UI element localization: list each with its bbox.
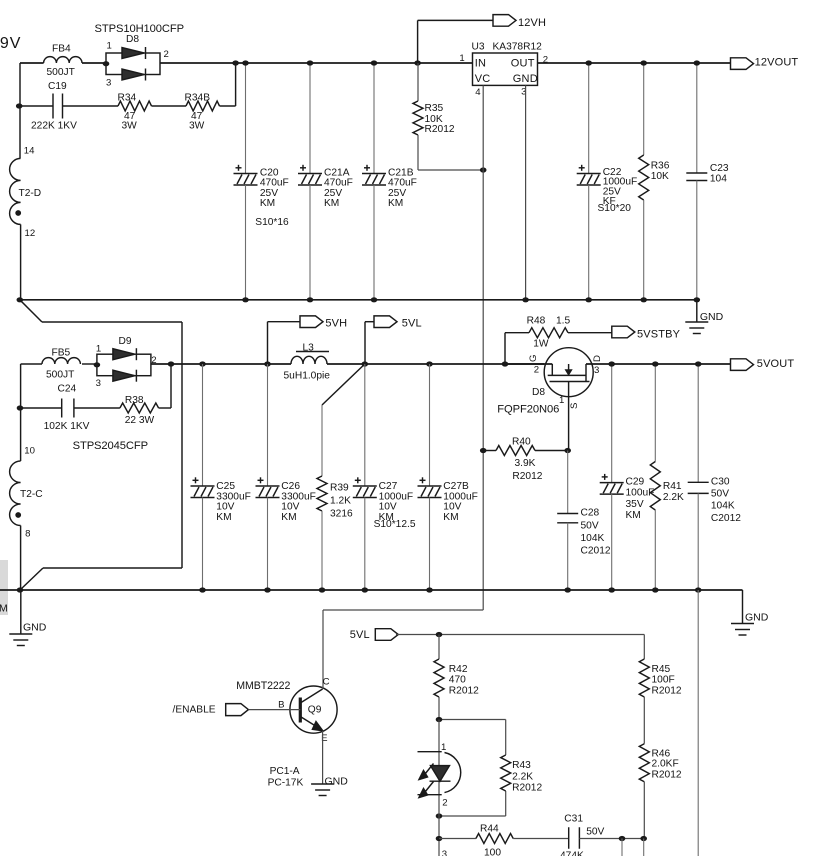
- resistor R38: [74, 407, 120, 409]
- capacitor C27: [364, 364, 366, 486]
- wire FB4 leads: [20, 62, 44, 64]
- node T2-D bus junction: [17, 297, 24, 302]
- inductor L3: [291, 356, 327, 364]
- node R39 bus junction: [319, 587, 326, 592]
- node C21A bottom: [307, 297, 314, 302]
- svg-text:C31: C31: [564, 814, 583, 825]
- resistor R45: [639, 659, 649, 697]
- node C28 bus junction: [564, 587, 571, 592]
- svg-text:R39: R39: [330, 482, 349, 493]
- resistor R43: [501, 755, 511, 791]
- svg-text:GND: GND: [513, 73, 538, 85]
- node R35-VC junction: [480, 167, 487, 172]
- svg-text:1: 1: [107, 40, 112, 51]
- svg-text:FQPF20N06: FQPF20N06: [497, 404, 559, 416]
- svg-text:3: 3: [96, 378, 101, 389]
- svg-text:104K: 104K: [581, 533, 605, 544]
- svg-text:R40: R40: [512, 436, 531, 447]
- capacitor C20: [245, 63, 247, 174]
- svg-text:IN: IN: [475, 58, 486, 70]
- resistor R34B: [152, 105, 187, 107]
- node C27-5VL rail junction: [362, 361, 369, 366]
- svg-text:5VH: 5VH: [325, 318, 347, 330]
- svg-text:R48: R48: [527, 315, 546, 326]
- node C23 top: [694, 60, 701, 65]
- node C20 bottom: [242, 297, 249, 302]
- svg-text:Q9: Q9: [308, 704, 322, 715]
- node C24 junction: [17, 405, 24, 410]
- wire 5V ground bus: [0, 589, 743, 591]
- wire T2-C pin8 to bus: [20, 526, 22, 591]
- svg-text:VC: VC: [475, 73, 491, 85]
- node C27B bus junction: [426, 587, 433, 592]
- svg-text:2.2K: 2.2K: [663, 492, 684, 503]
- node C22 top: [585, 60, 592, 65]
- flag 12VOUT: [731, 58, 754, 70]
- svg-text:S10*16: S10*16: [255, 217, 289, 228]
- svg-text:3W: 3W: [122, 121, 138, 132]
- svg-text:KM: KM: [626, 510, 641, 521]
- svg-text:14: 14: [24, 145, 35, 156]
- node C26 bus junction: [264, 587, 271, 592]
- node C27B rail junction: [426, 361, 433, 366]
- node R40 right junction: [564, 448, 571, 453]
- resistor R40: [496, 446, 535, 456]
- ground GND 5V bus right: [742, 590, 744, 624]
- node C26-5VH rail junction: [264, 361, 271, 366]
- svg-text:C2012: C2012: [581, 546, 611, 557]
- flag /ENABLE: [226, 704, 249, 716]
- node R48-gate junction: [502, 361, 509, 366]
- resistor R34: [63, 105, 119, 107]
- svg-text:2.0KF: 2.0KF: [652, 759, 679, 770]
- svg-text:R34: R34: [118, 93, 137, 104]
- flag 5VSTBY: [612, 326, 635, 338]
- transistor D8 mosfet FQPF20N06: [544, 348, 593, 397]
- svg-text:STPS10H100CFP: STPS10H100CFP: [95, 23, 184, 35]
- flag 5VL bottom: [375, 629, 398, 641]
- svg-text:GND: GND: [23, 622, 47, 634]
- flag 12VH: [493, 15, 516, 27]
- node PC1 pin1 junction: [436, 717, 443, 722]
- ferrite bead FB5: [42, 358, 80, 364]
- resistor R36: [643, 63, 645, 155]
- svg-text:KM: KM: [216, 512, 231, 523]
- wire 5V output rail: [612, 363, 731, 365]
- node T2-C bus junction: [17, 587, 24, 592]
- node R41 rail junction: [652, 361, 659, 366]
- wire /ENABLE to base: [248, 709, 300, 711]
- svg-text:FB4: FB4: [52, 43, 71, 54]
- op-amp U3 KA378R12 regulator: [473, 53, 538, 85]
- svg-text:474K: 474K: [560, 851, 584, 856]
- svg-text:3: 3: [442, 849, 447, 856]
- resistor R41: [654, 364, 656, 462]
- svg-text:500JT: 500JT: [47, 67, 75, 78]
- svg-text:R38: R38: [125, 395, 144, 406]
- svg-text:8: 8: [25, 529, 30, 540]
- node C25 bus junction: [199, 587, 206, 592]
- wire 12V ground bus: [20, 299, 697, 301]
- svg-text:3216: 3216: [330, 508, 353, 519]
- resistor R48: [504, 333, 506, 364]
- svg-text:C30: C30: [711, 477, 730, 488]
- svg-text:KM: KM: [260, 198, 275, 209]
- svg-text:4: 4: [475, 87, 481, 98]
- svg-text:12: 12: [25, 228, 36, 239]
- svg-text:R2012: R2012: [652, 770, 682, 781]
- ground GND 5V bus left: [20, 590, 22, 634]
- svg-text:3.9K: 3.9K: [515, 458, 536, 469]
- svg-text:50V: 50V: [711, 489, 729, 500]
- resistor R46: [639, 744, 649, 782]
- svg-text:R42: R42: [449, 664, 468, 675]
- node D9 anode junction: [94, 362, 101, 367]
- arrow PC1 emission 1: [425, 764, 434, 775]
- flag COM partial at left edge: [0, 560, 8, 615]
- wire U3 pin4 VC line down: [482, 85, 484, 610]
- node C21B bottom: [371, 297, 378, 302]
- node R44 junction: [436, 836, 443, 841]
- capacitor C21B: [373, 63, 375, 174]
- node C31 junction 2: [640, 836, 647, 841]
- dual diode D8 STPS10H100CFP: [106, 53, 160, 75]
- svg-text:MMBT2222: MMBT2222: [236, 680, 290, 692]
- capacitor C25: [202, 364, 204, 486]
- svg-text:R35: R35: [425, 103, 444, 114]
- svg-text:S10*12.5: S10*12.5: [374, 519, 416, 530]
- svg-text:D9: D9: [119, 336, 132, 347]
- wire 12V rail from D8 to U3: [160, 62, 473, 64]
- svg-text:12VOUT: 12VOUT: [755, 57, 799, 69]
- svg-text:S: S: [569, 403, 580, 409]
- capacitor C26: [267, 364, 269, 486]
- svg-text:D: D: [592, 355, 603, 362]
- capacitor C23: [696, 63, 698, 173]
- svg-text:D8: D8: [126, 34, 139, 45]
- svg-text:102K 1KV: 102K 1KV: [44, 421, 90, 432]
- svg-text:2: 2: [534, 365, 539, 376]
- resistor R44: [439, 838, 476, 840]
- svg-text:50V: 50V: [581, 520, 599, 531]
- svg-text:KM: KM: [324, 198, 339, 209]
- svg-text:1: 1: [441, 742, 446, 753]
- svg-text:R43: R43: [512, 760, 531, 771]
- svg-text:STPS2045CFP: STPS2045CFP: [73, 440, 148, 452]
- wire PC1 led column: [438, 720, 440, 766]
- node R36 bottom: [640, 297, 647, 302]
- svg-text:22 3W: 22 3W: [125, 415, 155, 426]
- node PC1 pin2 junction: [436, 813, 443, 818]
- node C21A top: [307, 60, 314, 65]
- wire 5VL branch: [365, 321, 374, 323]
- svg-text:R2012: R2012: [652, 686, 682, 697]
- svg-text:U3: U3: [472, 41, 485, 52]
- capacitor C21A: [309, 63, 311, 174]
- wire C31 to R46 column: [579, 838, 644, 840]
- svg-text:1W: 1W: [533, 339, 549, 350]
- svg-text:R44: R44: [480, 823, 499, 834]
- svg-text:5VSTBY: 5VSTBY: [637, 329, 681, 341]
- node C25 rail junction: [199, 361, 206, 366]
- node C30 bus junction: [695, 587, 702, 592]
- svg-text:5uH1.0pie: 5uH1.0pie: [284, 370, 331, 381]
- svg-text:T2-D: T2-D: [19, 188, 42, 199]
- svg-text:1: 1: [96, 343, 101, 354]
- capacitor C24: [61, 399, 63, 418]
- transformer winding T2-D: [10, 158, 21, 224]
- node C20 top: [242, 60, 249, 65]
- wire 5VL rail: [396, 634, 644, 636]
- node U3 GND bus junction: [522, 297, 529, 302]
- node C27 bus junction: [362, 587, 369, 592]
- wire U3 VC to Q9 collector: [323, 609, 483, 611]
- svg-text:100: 100: [484, 847, 501, 856]
- svg-text:PC-17K: PC-17K: [268, 777, 304, 788]
- svg-text:C28: C28: [581, 508, 600, 519]
- svg-text:B: B: [278, 699, 284, 710]
- svg-text:100F: 100F: [652, 675, 675, 686]
- node C31 junction 1: [619, 836, 626, 841]
- node C29 rail junction: [608, 361, 615, 366]
- wire 12V bus to 5V link: [20, 300, 42, 322]
- svg-text:2.2K: 2.2K: [512, 771, 533, 782]
- wire C19 left lead: [20, 105, 53, 107]
- svg-text:1: 1: [559, 395, 564, 406]
- svg-text:S10*20: S10*20: [598, 203, 632, 214]
- svg-text:C2012: C2012: [711, 513, 741, 524]
- svg-text:3: 3: [594, 365, 599, 376]
- svg-text:GND: GND: [745, 612, 769, 624]
- svg-text:C: C: [323, 677, 330, 688]
- diode PC1 led: [418, 751, 442, 753]
- svg-text:R36: R36: [651, 160, 670, 171]
- capacitor C22: [588, 63, 590, 174]
- resistor R35: [417, 63, 419, 101]
- svg-text:C23: C23: [710, 163, 729, 174]
- svg-text:500JT: 500JT: [46, 370, 74, 381]
- wire 12VH to rail: [418, 19, 493, 21]
- svg-text:GND: GND: [325, 775, 349, 787]
- node R41 bus junction: [652, 587, 659, 592]
- arrow PC1 emission 2: [425, 782, 434, 793]
- wire R34B to rail: [235, 63, 237, 106]
- wire 12V output rail: [538, 62, 731, 64]
- node C22 bottom: [585, 297, 592, 302]
- svg-text:PC1-A: PC1-A: [270, 766, 300, 777]
- svg-text:R41: R41: [663, 481, 682, 492]
- capacitor C28: [567, 451, 569, 514]
- svg-text:1.5: 1.5: [556, 315, 570, 326]
- node R36 top: [640, 60, 647, 65]
- svg-text:M: M: [0, 603, 8, 615]
- capacitor C27B: [429, 364, 431, 486]
- svg-text:R2012: R2012: [449, 686, 479, 697]
- svg-text:1: 1: [459, 53, 464, 64]
- flag 5VH: [300, 316, 323, 328]
- svg-text:R2012: R2012: [512, 783, 542, 794]
- wire Q9 collector: [322, 687, 324, 689]
- svg-text:5VL: 5VL: [350, 629, 370, 641]
- svg-text:3W: 3W: [189, 121, 205, 132]
- node R40 left junction: [480, 448, 487, 453]
- svg-text:19V: 19V: [0, 35, 21, 52]
- wire long vertical to bottom: [697, 590, 699, 856]
- wire PC1 pin3 down: [438, 816, 440, 856]
- ferrite bead FB4: [44, 57, 82, 63]
- svg-text:35V: 35V: [626, 499, 644, 510]
- transistor Q9 MMBT2222: [290, 686, 337, 733]
- svg-text:R2012: R2012: [425, 124, 455, 135]
- node C23 bottom: [694, 297, 701, 302]
- ground GND 12V bus: [696, 300, 698, 322]
- svg-text:G: G: [528, 355, 539, 362]
- svg-text:R2012: R2012: [512, 471, 542, 482]
- svg-text:FB5: FB5: [52, 348, 71, 359]
- capacitor C19: [52, 94, 54, 119]
- svg-text:R46: R46: [652, 748, 671, 759]
- svg-text:222K 1KV: 222K 1KV: [31, 120, 77, 131]
- wire T2-D pin12 to ground bus: [20, 224, 22, 299]
- svg-text:D8: D8: [532, 387, 545, 398]
- wire 5V left vertical: [20, 364, 22, 461]
- svg-text:KM: KM: [443, 512, 458, 523]
- node C29 bus junction: [608, 587, 615, 592]
- svg-text:2: 2: [543, 55, 548, 66]
- svg-text:5VOUT: 5VOUT: [757, 358, 795, 370]
- svg-text:C29: C29: [626, 477, 645, 488]
- wire R35 to U3 VC: [418, 169, 483, 171]
- svg-text:104: 104: [710, 174, 727, 185]
- wire R39 diagonal: [322, 364, 365, 405]
- node R42 junction: [436, 632, 443, 637]
- svg-text:12VH: 12VH: [518, 17, 546, 29]
- wire Q9 emitter: [322, 731, 324, 784]
- wire 5V rail D9 to L3: [151, 363, 291, 365]
- capacitor C31: [568, 827, 570, 849]
- resistor R39: [317, 476, 327, 511]
- node C21B top: [371, 60, 378, 65]
- svg-text:2: 2: [442, 797, 447, 808]
- node C30 rail junction: [695, 361, 702, 366]
- svg-text:50V: 50V: [586, 826, 604, 837]
- node D8 anode junction: [103, 61, 110, 66]
- svg-text:3: 3: [106, 78, 111, 89]
- svg-text:KM: KM: [388, 198, 403, 209]
- flag 5VOUT: [731, 359, 754, 371]
- svg-text:/ENABLE: /ENABLE: [173, 704, 216, 715]
- optocoupler PC1-A PC-17K: [439, 719, 506, 721]
- svg-text:R45: R45: [652, 664, 671, 675]
- node R38 rail junction: [168, 361, 175, 366]
- svg-text:10: 10: [24, 445, 35, 456]
- svg-text:470: 470: [449, 675, 466, 686]
- svg-text:2: 2: [164, 49, 169, 60]
- svg-text:OUT: OUT: [511, 58, 535, 70]
- svg-text:KM: KM: [281, 512, 296, 523]
- wire 5V rail L3 to mosfet: [327, 363, 544, 365]
- capacitor C29: [611, 364, 613, 483]
- svg-text:C24: C24: [58, 384, 77, 395]
- node C19 junction: [16, 103, 23, 108]
- svg-text:10K: 10K: [651, 171, 669, 182]
- resistor R42: [438, 635, 440, 660]
- wire stub down 1: [621, 839, 623, 856]
- node R34B rail junction: [232, 60, 239, 65]
- wire U3 pin3 GND line: [525, 85, 527, 299]
- wire 12V input left vertical: [19, 63, 21, 158]
- wire 5VH branch: [268, 321, 301, 323]
- wire stub down 2: [643, 839, 645, 856]
- dual diode D9 STPS2045CFP: [97, 354, 151, 376]
- svg-text:1.2K: 1.2K: [330, 496, 351, 507]
- flag 5VL: [374, 316, 397, 328]
- wire C24 left lead: [21, 407, 62, 409]
- svg-text:C19: C19: [48, 81, 67, 92]
- svg-text:T2-C: T2-C: [20, 489, 43, 500]
- svg-text:5VL: 5VL: [402, 318, 422, 330]
- svg-text:R34B: R34B: [185, 93, 211, 104]
- wire FB5 leads: [21, 363, 42, 365]
- svg-text:GND: GND: [700, 311, 724, 323]
- capacitor C30: [697, 364, 699, 482]
- node 12VH junction: [414, 60, 421, 65]
- svg-text:KA378R12: KA378R12: [493, 41, 543, 52]
- svg-text:104K: 104K: [711, 501, 735, 512]
